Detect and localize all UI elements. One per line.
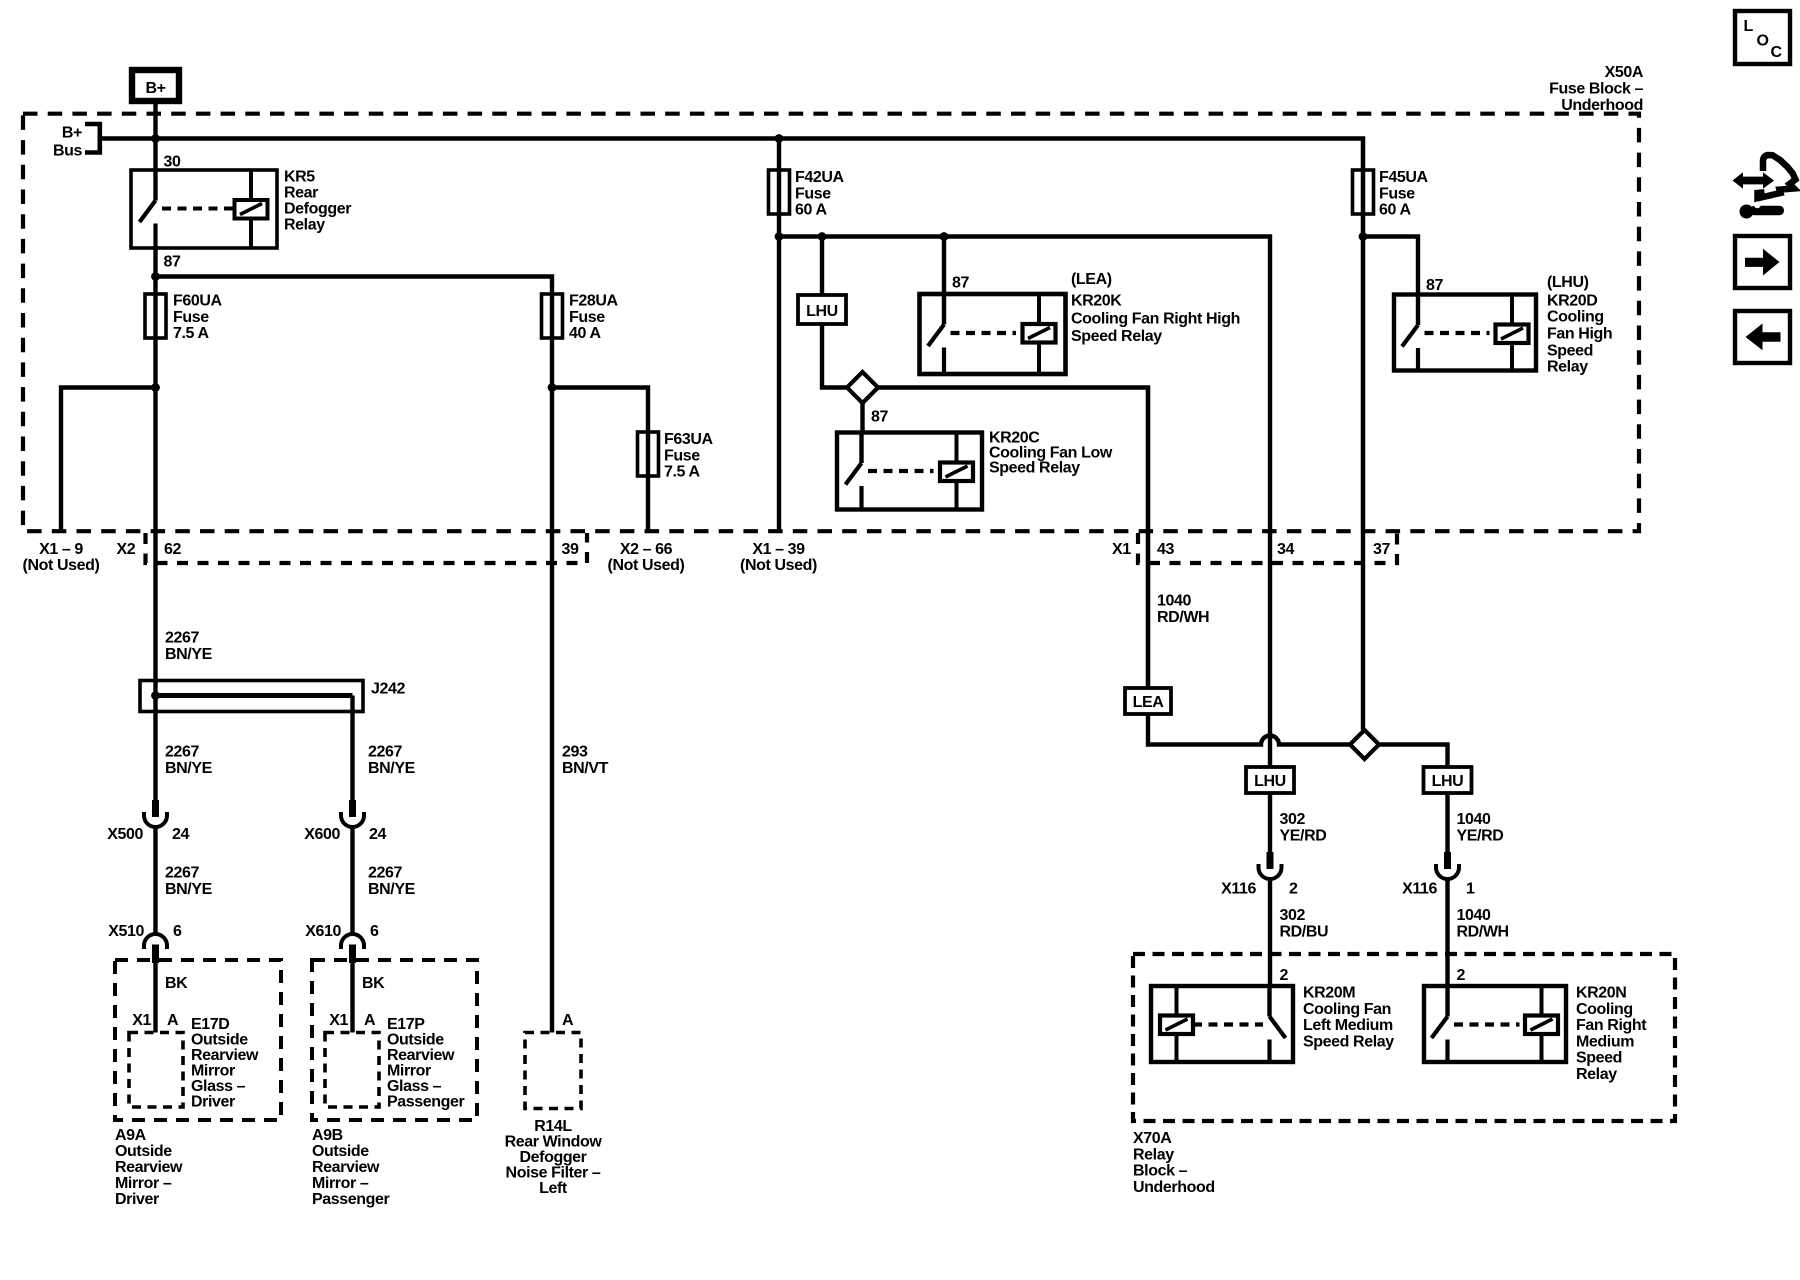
svg-text:Outside: Outside — [387, 1032, 444, 1049]
svg-text:Fan Right: Fan Right — [1576, 1017, 1647, 1034]
svg-text:YE/RD: YE/RD — [1457, 827, 1504, 844]
connector X600 — [341, 800, 364, 827]
svg-text:Defogger: Defogger — [284, 201, 351, 218]
svg-text:YE/RD: YE/RD — [1280, 827, 1327, 844]
svg-text:A: A — [167, 1012, 179, 1029]
svg-text:A9A: A9A — [115, 1127, 147, 1144]
svg-text:BN/YE: BN/YE — [165, 646, 213, 663]
splice pack J242 — [140, 681, 363, 712]
svg-text:LHU: LHU — [806, 303, 838, 320]
svg-text:Noise Filter –: Noise Filter – — [506, 1165, 601, 1182]
svg-text:Glass –: Glass – — [387, 1078, 442, 1095]
svg-text:Left: Left — [539, 1180, 568, 1197]
fuse F63UA — [638, 432, 659, 476]
node rail-LHU — [818, 232, 827, 241]
wire diamond to LHU right — [1379, 745, 1448, 768]
svg-text:Cooling Fan Right High: Cooling Fan Right High — [1071, 311, 1240, 328]
icon arrow left box — [1735, 311, 1790, 363]
wire LHU right to X116 — [1445, 793, 1449, 853]
wire diamond to KR20C — [860, 403, 864, 433]
svg-text:40 A: 40 A — [569, 325, 601, 342]
connector X2 dashed outline — [146, 533, 588, 563]
net LHU left box — [1246, 767, 1294, 793]
svg-text:X1: X1 — [132, 1012, 151, 1029]
svg-text:87: 87 — [952, 275, 969, 292]
svg-text:87: 87 — [1426, 277, 1443, 294]
wire X116 to KR20M — [1268, 879, 1272, 986]
svg-text:Medium: Medium — [1576, 1033, 1634, 1050]
svg-text:2267: 2267 — [165, 630, 199, 647]
svg-text:F60UA: F60UA — [173, 293, 223, 310]
node F45UA branch — [1359, 232, 1368, 241]
svg-text:X70A: X70A — [1133, 1130, 1172, 1147]
svg-text:24: 24 — [369, 826, 386, 843]
svg-text:87: 87 — [871, 409, 888, 426]
wire LHU top drop — [820, 237, 824, 296]
svg-text:X600: X600 — [304, 826, 340, 843]
svg-text:Rearview: Rearview — [387, 1047, 455, 1064]
svg-text:R14L: R14L — [534, 1118, 572, 1135]
svg-text:Speed Relay: Speed Relay — [1303, 1033, 1394, 1050]
svg-text:J242: J242 — [371, 681, 405, 698]
svg-text:6: 6 — [370, 923, 379, 940]
svg-text:L: L — [1744, 18, 1754, 35]
svg-text:Fan High: Fan High — [1547, 326, 1612, 343]
icon wrench — [1740, 202, 1785, 219]
svg-text:X1 – 39: X1 – 39 — [752, 541, 805, 558]
relay KR20N — [1424, 986, 1566, 1062]
relay KR20C — [837, 433, 982, 510]
svg-text:87: 87 — [164, 254, 181, 271]
svg-text:KR20D: KR20D — [1547, 293, 1597, 310]
wire F42UA drop to pin X1-39 — [777, 139, 781, 532]
svg-text:1: 1 — [1466, 881, 1475, 898]
svg-text:Rearview: Rearview — [115, 1159, 183, 1176]
svg-text:Speed Relay: Speed Relay — [989, 460, 1080, 477]
wire J242 to X600 — [350, 696, 354, 802]
fuse F42UA — [769, 170, 790, 214]
fuse F45UA — [1353, 170, 1374, 214]
svg-text:X1: X1 — [1112, 541, 1131, 558]
svg-text:A: A — [562, 1012, 574, 1029]
svg-text:302: 302 — [1280, 811, 1306, 828]
svg-text:Mirror: Mirror — [387, 1063, 431, 1080]
svg-text:F45UA: F45UA — [1379, 169, 1429, 186]
svg-text:F28UA: F28UA — [569, 293, 619, 310]
svg-text:LHU: LHU — [1254, 773, 1286, 790]
connector X510 — [144, 934, 167, 963]
svg-text:B+: B+ — [145, 80, 165, 97]
relay KR5 — [131, 170, 277, 248]
splice diamond S2 — [1350, 730, 1379, 759]
wire LHU to splice diamond — [822, 324, 847, 388]
relay KR20M — [1151, 986, 1293, 1062]
svg-text:Driver: Driver — [115, 1191, 159, 1208]
svg-text:X116: X116 — [1221, 881, 1256, 898]
wire X610 into A9B — [350, 963, 354, 1033]
svg-text:(LHU): (LHU) — [1547, 274, 1589, 291]
svg-text:Cooling Fan: Cooling Fan — [1303, 1001, 1391, 1018]
svg-text:Fuse: Fuse — [1379, 185, 1415, 202]
wire 87 link to F28UA and drop to R14L — [156, 277, 553, 1033]
svg-text:X116: X116 — [1402, 881, 1437, 898]
svg-text:2267: 2267 — [368, 744, 402, 761]
svg-text:2267: 2267 — [165, 744, 199, 761]
splice diamond S1 — [847, 372, 878, 403]
svg-text:34: 34 — [1277, 541, 1294, 558]
svg-text:Outside: Outside — [312, 1143, 369, 1160]
svg-text:Speed Relay: Speed Relay — [1071, 328, 1162, 345]
node rail-F42UA — [775, 232, 784, 241]
svg-text:30: 30 — [164, 154, 181, 171]
svg-text:X1: X1 — [329, 1012, 348, 1029]
svg-text:Underhood: Underhood — [1133, 1179, 1215, 1196]
B+ bus bracket — [85, 124, 100, 153]
svg-text:Outside: Outside — [115, 1143, 172, 1160]
svg-text:2267: 2267 — [368, 865, 402, 882]
svg-text:2267: 2267 — [165, 865, 199, 882]
svg-text:Driver: Driver — [191, 1094, 235, 1111]
wire F45UA branch to KR20D — [1363, 237, 1418, 296]
svg-text:Relay: Relay — [1547, 359, 1588, 376]
fuse F60UA — [145, 294, 166, 338]
svg-text:Mirror –: Mirror – — [115, 1175, 172, 1192]
svg-text:BN/YE: BN/YE — [368, 881, 416, 898]
connector X610 — [341, 934, 364, 963]
svg-text:293: 293 — [562, 744, 588, 761]
svg-text:F42UA: F42UA — [795, 169, 845, 186]
connector X500 — [144, 800, 167, 827]
svg-text:KR20K: KR20K — [1071, 293, 1122, 310]
connector X1 dashed outline — [1138, 533, 1397, 563]
relay KR20D — [1394, 295, 1536, 371]
svg-text:Cooling: Cooling — [1576, 1001, 1633, 1018]
component E17P dashed box — [325, 1033, 379, 1108]
svg-text:B+: B+ — [62, 125, 82, 142]
wire pin37 to diamond — [1361, 531, 1365, 730]
svg-text:Rear: Rear — [284, 185, 318, 202]
svg-text:RD/WH: RD/WH — [1157, 609, 1209, 626]
net LEA box — [1125, 688, 1171, 714]
relay KR20K — [920, 294, 1066, 374]
svg-text:7.5 A: 7.5 A — [173, 325, 209, 342]
svg-text:6: 6 — [173, 923, 182, 940]
svg-text:60 A: 60 A — [795, 202, 827, 219]
svg-text:Cooling: Cooling — [1547, 309, 1604, 326]
wire LEA to splice diamond with hop — [1148, 714, 1350, 745]
svg-text:Defogger: Defogger — [519, 1149, 586, 1166]
svg-text:Relay: Relay — [1133, 1146, 1174, 1163]
svg-text:X2: X2 — [117, 541, 136, 558]
svg-text:1040: 1040 — [1157, 593, 1191, 610]
wire X500 to X510 — [153, 827, 157, 935]
svg-text:2: 2 — [1457, 967, 1466, 984]
svg-text:Relay: Relay — [284, 217, 325, 234]
svg-text:X510: X510 — [108, 923, 144, 940]
svg-text:Mirror: Mirror — [191, 1063, 235, 1080]
svg-text:302: 302 — [1280, 907, 1306, 924]
svg-text:E17P: E17P — [387, 1016, 425, 1033]
svg-text:60 A: 60 A — [1379, 202, 1411, 219]
wire branch to F63UA and pin X2-66 — [552, 388, 648, 532]
svg-text:E17D: E17D — [191, 1016, 229, 1033]
svg-text:24: 24 — [172, 826, 189, 843]
svg-text:39: 39 — [562, 541, 579, 558]
svg-text:C: C — [1771, 44, 1783, 61]
svg-text:(Not Used): (Not Used) — [23, 557, 100, 574]
component R14L dashed box — [525, 1033, 581, 1109]
svg-text:O: O — [1757, 33, 1769, 50]
icon navigation double arrow — [1733, 172, 1775, 188]
component E17D dashed box — [129, 1033, 183, 1108]
wire X116 to KR20N — [1445, 879, 1449, 986]
svg-text:Fuse: Fuse — [569, 309, 605, 326]
icon navigation outline arrow — [1758, 155, 1796, 198]
node bus-KR5 — [151, 134, 160, 143]
svg-text:X1 – 9: X1 – 9 — [39, 541, 83, 558]
svg-text:Bus: Bus — [53, 143, 83, 160]
svg-text:Mirror –: Mirror – — [312, 1175, 369, 1192]
svg-text:62: 62 — [164, 541, 181, 558]
svg-text:F63UA: F63UA — [664, 431, 714, 448]
svg-text:1040: 1040 — [1457, 811, 1491, 828]
svg-text:2: 2 — [1289, 881, 1298, 898]
svg-text:43: 43 — [1157, 541, 1174, 558]
svg-text:BK: BK — [362, 975, 385, 992]
svg-text:KR20N: KR20N — [1576, 985, 1626, 1002]
svg-text:X610: X610 — [305, 923, 341, 940]
svg-text:X500: X500 — [107, 826, 143, 843]
svg-text:X2 – 66: X2 – 66 — [620, 541, 673, 558]
svg-text:(Not Used): (Not Used) — [740, 557, 817, 574]
relay block X70A dashed box — [1133, 954, 1675, 1121]
wire X600 to X610 — [350, 827, 354, 935]
svg-text:BN/YE: BN/YE — [368, 760, 416, 777]
svg-text:7.5 A: 7.5 A — [664, 464, 700, 481]
wire KR20K 87 drop — [942, 237, 946, 295]
svg-text:BK: BK — [165, 975, 188, 992]
svg-text:Relay: Relay — [1576, 1066, 1617, 1083]
svg-text:1040: 1040 — [1457, 907, 1491, 924]
node rail-KR20K — [940, 232, 949, 241]
svg-text:BN/VT: BN/VT — [562, 760, 609, 777]
svg-text:Fuse: Fuse — [795, 185, 831, 202]
icon arrow right box — [1735, 236, 1790, 288]
svg-text:2: 2 — [1280, 967, 1289, 984]
fuse block X50A dashed box — [23, 114, 1639, 532]
wire B+ feed drop — [153, 100, 157, 172]
svg-text:37: 37 — [1373, 541, 1390, 558]
svg-text:Passenger: Passenger — [312, 1191, 390, 1208]
svg-text:Speed: Speed — [1576, 1050, 1622, 1067]
node bus-F42UA — [775, 134, 784, 143]
svg-text:RD/BU: RD/BU — [1280, 923, 1329, 940]
wire KR5 87 output down through F60UA to J242 — [153, 248, 157, 801]
node F28UA branch — [548, 383, 557, 392]
svg-text:Block –: Block – — [1133, 1163, 1188, 1180]
wire B+ bus horizontal and F45UA drop to pin 37 — [100, 139, 1363, 532]
svg-text:LEA: LEA — [1133, 694, 1165, 711]
wire F42UA feed rail to pin 34 and LHU left drop — [779, 237, 1270, 854]
svg-text:Glass –: Glass – — [191, 1078, 246, 1095]
svg-text:Left Medium: Left Medium — [1303, 1017, 1393, 1034]
svg-text:RD/WH: RD/WH — [1457, 923, 1509, 940]
svg-text:BN/YE: BN/YE — [165, 881, 213, 898]
svg-text:Rearview: Rearview — [312, 1159, 380, 1176]
battery feed B+ box — [132, 70, 179, 101]
svg-text:Speed: Speed — [1547, 343, 1593, 360]
svg-text:Outside: Outside — [191, 1032, 248, 1049]
svg-text:(Not Used): (Not Used) — [608, 557, 685, 574]
component A9A dashed box — [115, 960, 281, 1120]
svg-text:A: A — [364, 1012, 376, 1029]
connector X116 pin2 — [1259, 852, 1282, 879]
icon LOC box — [1735, 11, 1790, 64]
fuse F28UA — [542, 294, 563, 338]
node 87 — [151, 272, 160, 281]
svg-text:KR20M: KR20M — [1303, 985, 1355, 1002]
wire branch to X1-9 not used — [61, 388, 156, 532]
node F60UA branch — [151, 383, 160, 392]
svg-text:LHU: LHU — [1432, 773, 1464, 790]
net LHU top box — [798, 295, 846, 324]
svg-text:KR5: KR5 — [284, 169, 315, 186]
svg-text:A9B: A9B — [312, 1127, 343, 1144]
svg-text:X50A: X50A — [1605, 64, 1644, 81]
svg-text:Rearview: Rearview — [191, 1047, 259, 1064]
svg-text:(LEA): (LEA) — [1071, 271, 1112, 288]
net LHU right box — [1424, 767, 1472, 793]
svg-text:Underhood: Underhood — [1561, 97, 1643, 114]
wire diamond to pin 43 and LEA — [878, 388, 1148, 689]
connector X116 pin1 — [1436, 852, 1459, 879]
svg-text:Fuse: Fuse — [664, 447, 700, 464]
component A9B dashed box — [312, 960, 477, 1120]
svg-text:Fuse: Fuse — [173, 309, 209, 326]
svg-text:Fuse Block –: Fuse Block – — [1549, 81, 1643, 98]
wire X510 into A9A — [153, 963, 157, 1033]
svg-text:BN/YE: BN/YE — [165, 760, 213, 777]
svg-text:Rear Window: Rear Window — [505, 1134, 603, 1151]
svg-text:Passenger: Passenger — [387, 1094, 465, 1111]
